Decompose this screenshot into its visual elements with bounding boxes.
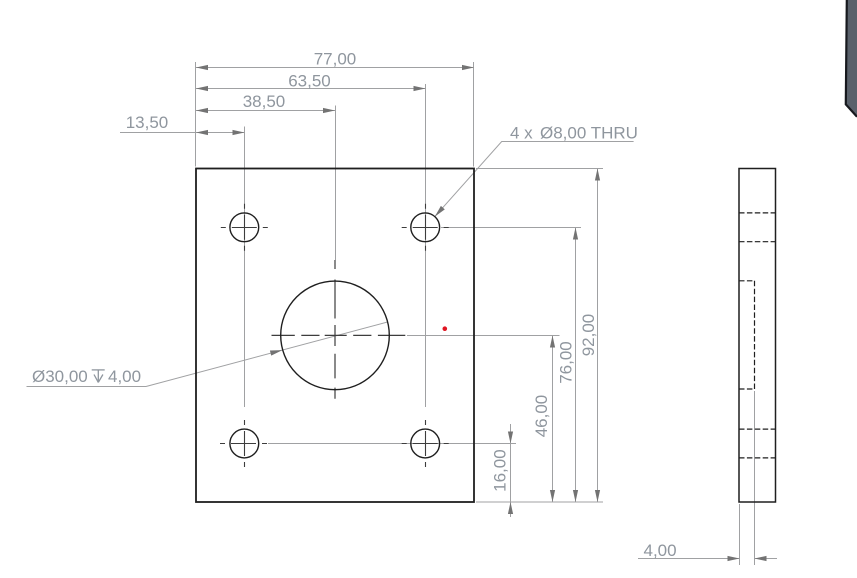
svg-text:4 x: 4 x — [510, 124, 533, 143]
svg-text:Ø30,00: Ø30,00 — [32, 367, 88, 386]
svg-text:77,00: 77,00 — [314, 50, 357, 69]
svg-text:46,00: 46,00 — [532, 395, 551, 438]
svg-text:13,50: 13,50 — [126, 113, 169, 132]
svg-text:63,50: 63,50 — [288, 72, 331, 91]
svg-text:4,00: 4,00 — [644, 541, 677, 560]
svg-text:92,00: 92,00 — [579, 314, 598, 357]
svg-text:38,50: 38,50 — [243, 92, 286, 111]
svg-text:Ø8,00 THRU: Ø8,00 THRU — [540, 124, 638, 143]
svg-text:76,00: 76,00 — [557, 341, 576, 384]
svg-text:16,00: 16,00 — [491, 449, 510, 492]
svg-text:4,00: 4,00 — [108, 367, 141, 386]
